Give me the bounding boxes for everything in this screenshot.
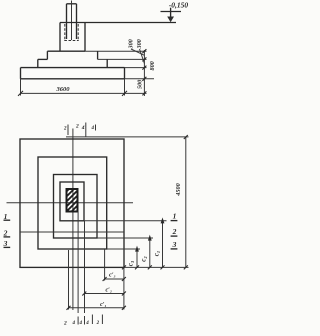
svg-text:4500: 4500: [175, 183, 182, 196]
svg-text:3600: 3600: [56, 86, 71, 93]
svg-text:4: 4: [72, 321, 76, 326]
svg-text:c₃: c₃: [127, 260, 135, 266]
svg-text:2: 2: [96, 321, 100, 326]
svg-text:2: 2: [3, 228, 8, 237]
svg-text:c′₂: c′₂: [105, 288, 111, 294]
svg-text:800: 800: [149, 61, 156, 70]
svg-text:300: 300: [128, 39, 135, 49]
svg-text:c₁: c₁: [153, 251, 161, 257]
svg-text:1: 1: [173, 211, 177, 220]
svg-text:-0,150: -0,150: [169, 1, 189, 10]
svg-text:3: 3: [172, 240, 177, 249]
svg-text:2: 2: [172, 227, 177, 236]
svg-text:3: 3: [3, 239, 8, 248]
svg-text:500: 500: [137, 80, 144, 89]
svg-text:c′₁: c′₁: [100, 302, 106, 308]
svg-text:4: 4: [85, 321, 89, 326]
svg-text:4: 4: [91, 126, 95, 131]
svg-text:2: 2: [63, 321, 67, 327]
svg-text:2: 2: [63, 127, 67, 132]
svg-text:4: 4: [81, 125, 85, 131]
svg-text:c′₃: c′₃: [109, 272, 115, 278]
svg-text:4: 4: [79, 321, 83, 326]
svg-text:2: 2: [75, 124, 79, 130]
svg-text:1: 1: [4, 212, 8, 221]
svg-text:300: 300: [136, 39, 143, 49]
svg-text:c₂: c₂: [139, 256, 147, 262]
